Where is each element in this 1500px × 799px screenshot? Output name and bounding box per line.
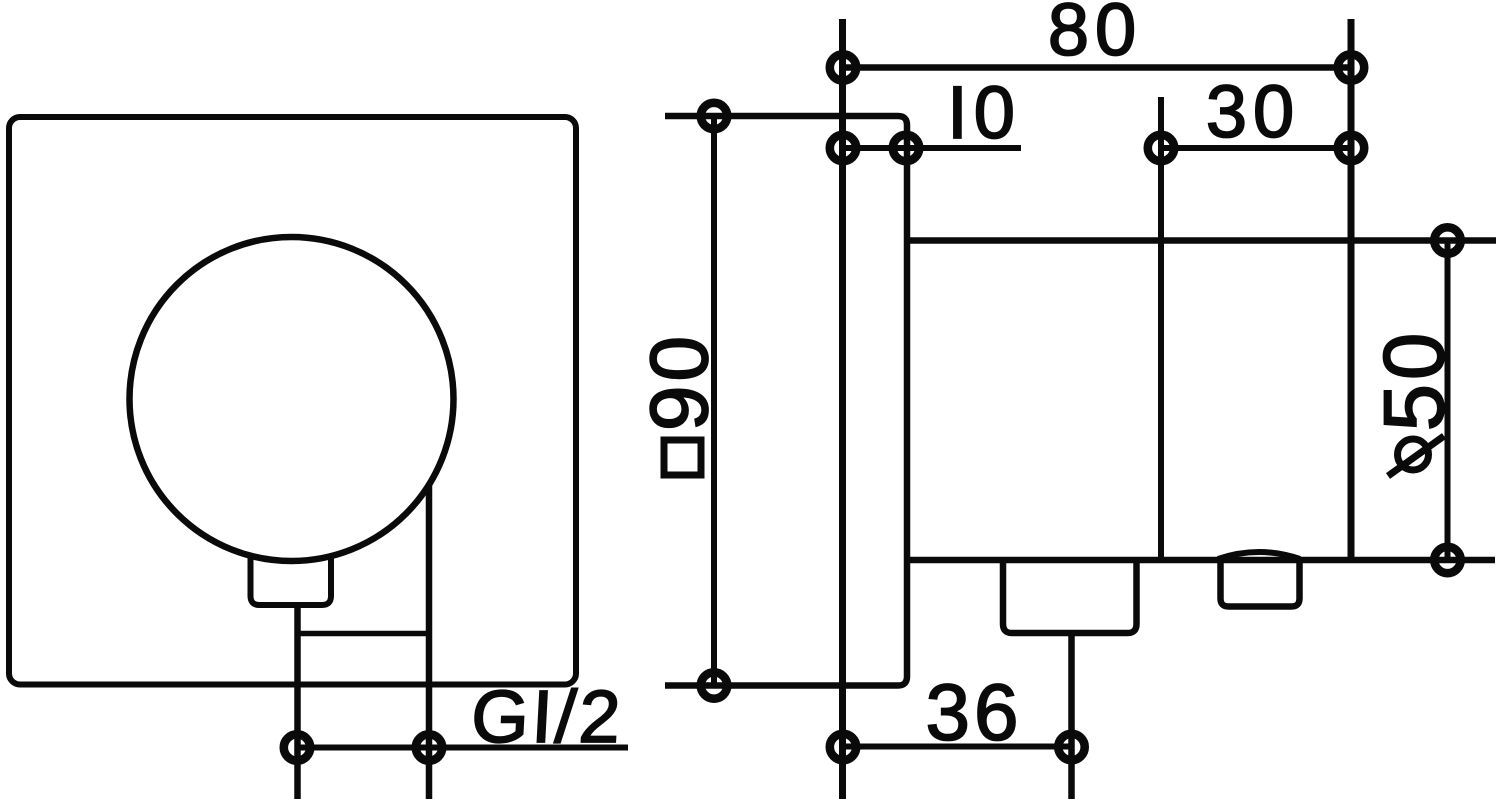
body step line	[1158, 97, 1164, 560]
outlet tab	[251, 555, 332, 605]
outlet pipe line	[1068, 633, 1075, 799]
small outlet	[1221, 560, 1300, 607]
svg-text:30: 30	[1206, 70, 1300, 153]
dim marker right pipe	[416, 734, 442, 760]
svg-text:50: 50	[1367, 329, 1462, 432]
dim marker left pipe	[284, 734, 310, 760]
dim marker d50 bottom	[1434, 547, 1460, 573]
dim line 10	[843, 145, 1022, 151]
big outlet	[1003, 560, 1137, 633]
dim line 30	[1161, 145, 1351, 151]
dim line diameter 50	[1445, 241, 1451, 561]
flange outline with 90-dim ticks	[665, 116, 907, 686]
small outlet dome	[1218, 552, 1300, 559]
dim marker 10 left	[830, 135, 856, 161]
tab connector line	[298, 631, 430, 637]
dim marker 10 right	[893, 135, 919, 161]
front plate square	[9, 117, 576, 685]
svg-text:36: 36	[926, 668, 1023, 757]
svg-text:GI/2: GI/2	[469, 675, 625, 758]
dim marker 90 top	[701, 103, 727, 129]
G1/2 leader line	[297, 745, 628, 751]
dim marker d50 top	[1434, 227, 1460, 253]
dim marker 36 right	[1058, 734, 1084, 760]
dim marker 36 left	[830, 734, 856, 760]
wall extension line	[839, 19, 846, 799]
right pipe line	[426, 484, 433, 799]
dim line 90	[711, 116, 717, 686]
left pipe line	[294, 605, 301, 799]
dim marker 90 bottom	[701, 672, 727, 698]
dim line 80	[843, 64, 1352, 71]
diameter symbol of 50 label	[1398, 439, 1429, 470]
svg-text:80: 80	[1048, 0, 1142, 71]
body right edge / 80-30 extension line	[1348, 19, 1355, 560]
body bottom edge	[907, 557, 1495, 564]
body top edge	[907, 237, 1496, 244]
handle circle	[130, 237, 454, 561]
dim marker 30 right	[1338, 135, 1364, 161]
svg-text:90: 90	[634, 332, 725, 431]
dim marker 30 left	[1148, 135, 1174, 161]
dim line 36	[843, 744, 1072, 750]
square symbol of 90 label	[664, 440, 701, 475]
dim marker 80 right	[1338, 54, 1364, 80]
svg-text:I0: I0	[947, 71, 1021, 154]
dim marker 80 left	[830, 54, 856, 80]
